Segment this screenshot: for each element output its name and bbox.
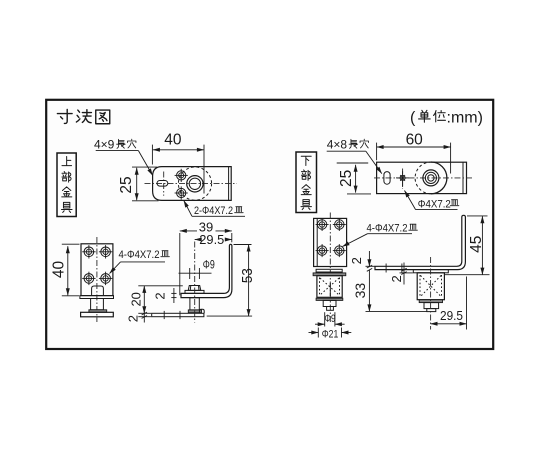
pivot centerline: [430, 257, 432, 330]
label 4x8 slot: [327, 138, 382, 174]
label phi4x7.2 countersunk: [405, 191, 459, 211]
dimension phi9: [315, 312, 345, 326]
knurled collar: [188, 310, 201, 313]
svg-text:40: 40: [164, 131, 182, 148]
outer frame: [46, 100, 493, 349]
washer: [185, 290, 204, 293]
svg-text::mm): :mm): [447, 110, 483, 127]
svg-text:25: 25: [118, 176, 135, 193]
hidden round end (dashed circle): [431, 162, 447, 194]
dimension 40 (front view): [51, 244, 80, 296]
dimension 25: [337, 163, 371, 194]
screws (4): [82, 245, 112, 285]
pivot boss circles: [423, 170, 439, 186]
socket body: [317, 276, 342, 298]
bottom stub: [427, 309, 436, 312]
svg-text:4×8: 4×8: [327, 138, 348, 152]
svg-text:45: 45: [468, 236, 485, 253]
pivot centerline: [194, 242, 196, 323]
dimension 2 (strap thickness): [152, 288, 176, 303]
dimension 39: [180, 219, 232, 295]
dimension 20: [128, 286, 182, 314]
bushing stem: [190, 298, 199, 310]
svg-text:29.5: 29.5: [440, 309, 463, 323]
label 4-phi4x7.2 countersunk (lower): [343, 223, 418, 247]
label 4-phi4x7.2 countersunk: [110, 249, 170, 274]
bend edge line: [316, 218, 318, 266]
nut: [188, 286, 201, 291]
svg-text:33: 33: [352, 283, 368, 299]
svg-text:2-Φ4X7.2: 2-Φ4X7.2: [194, 205, 233, 217]
mounting plate: [314, 218, 347, 266]
svg-text:4-Φ4X7.2: 4-Φ4X7.2: [367, 223, 408, 235]
collar ring: [419, 300, 442, 303]
label 2-phi4x7.2 countersunk: [184, 201, 245, 218]
svg-text:4×9: 4×9: [94, 138, 115, 152]
base plate (edge-on): [152, 313, 204, 316]
dimension 29.5: [431, 277, 467, 330]
washer: [413, 270, 448, 273]
dimension 2 (base plate thickness): [126, 312, 152, 322]
collar ring: [316, 298, 343, 300]
label phi9: [179, 258, 216, 280]
screws (4): [316, 218, 346, 257]
dimension phi21: [309, 328, 352, 341]
label box 下部金具: [296, 152, 317, 213]
horizontal centerline: [374, 177, 474, 179]
svg-text:(: (: [410, 110, 416, 127]
screw vertical centerline: [402, 169, 404, 189]
stub: [323, 300, 336, 306]
svg-text:25: 25: [338, 170, 355, 187]
horizontal centerline: [145, 183, 237, 185]
dimension 45: [444, 216, 490, 275]
knurled collar: [89, 310, 107, 313]
svg-text:Φ9: Φ9: [203, 258, 215, 272]
pivot hole: [187, 176, 203, 192]
svg-text:Φ9: Φ9: [325, 313, 336, 325]
screw marks on base plate: [163, 311, 165, 319]
stem: [91, 299, 104, 310]
svg-text:Φ21: Φ21: [322, 329, 339, 341]
label 4x9 slot: [94, 138, 153, 176]
socket spring pattern: [320, 278, 340, 296]
dimension 2 (washer): [389, 263, 413, 285]
label box 上部金具: [57, 153, 76, 217]
dimension 2 (plate): [349, 251, 375, 271]
svg-text:2: 2: [152, 292, 167, 299]
countersunk screw: [396, 171, 409, 187]
screw marks on plate: [385, 264, 387, 273]
svg-text:2: 2: [126, 315, 141, 322]
dimension 33: [352, 270, 427, 312]
slot 4x9: [157, 181, 168, 187]
svg-text:60: 60: [406, 131, 424, 148]
slot vertical centerline: [163, 172, 165, 196]
disc end lump: [199, 309, 204, 313]
dimension 40: [152, 131, 204, 193]
stub: [424, 303, 439, 309]
dimension 25: [118, 167, 158, 201]
svg-text:53: 53: [239, 268, 256, 283]
neck bar: [316, 269, 342, 272]
svg-text:29.5: 29.5: [199, 233, 224, 247]
unit note (単位:mm): [410, 110, 483, 127]
stem behind plate: [92, 286, 104, 296]
bend line (right edge inner): [228, 167, 230, 201]
dimension 60: [377, 131, 451, 173]
bend line (right edge inner): [462, 162, 464, 193]
countersunk screw lower: [175, 186, 188, 199]
mounting plate: [81, 244, 113, 296]
svg-text:40: 40: [51, 261, 68, 279]
body outline: [377, 162, 467, 193]
svg-text:4-Φ4X7.2: 4-Φ4X7.2: [119, 249, 160, 261]
hidden round end (dashed circle): [178, 167, 211, 200]
thin base plate: [80, 296, 114, 299]
slot 4x8: [384, 172, 390, 185]
bottom disc: [81, 312, 114, 317]
vertical centerline: [96, 237, 98, 322]
dimension 53: [207, 245, 256, 317]
socket spring pattern: [420, 275, 442, 297]
L-strap side profile: [181, 244, 232, 297]
socket body: [417, 273, 444, 300]
L-strap side profile: [375, 215, 465, 269]
bottom stub: [327, 307, 334, 311]
title 寸法図: [57, 109, 109, 123]
dimension 29.5: [195, 233, 232, 247]
washer (dark): [313, 273, 346, 276]
vertical centerline: [329, 213, 331, 325]
countersunk screw upper: [175, 169, 188, 182]
svg-text:20: 20: [128, 292, 143, 306]
svg-text:2: 2: [389, 275, 404, 282]
body outline: [153, 167, 232, 201]
svg-text:2: 2: [349, 257, 364, 264]
svg-text:Φ4X7.2: Φ4X7.2: [418, 198, 451, 210]
